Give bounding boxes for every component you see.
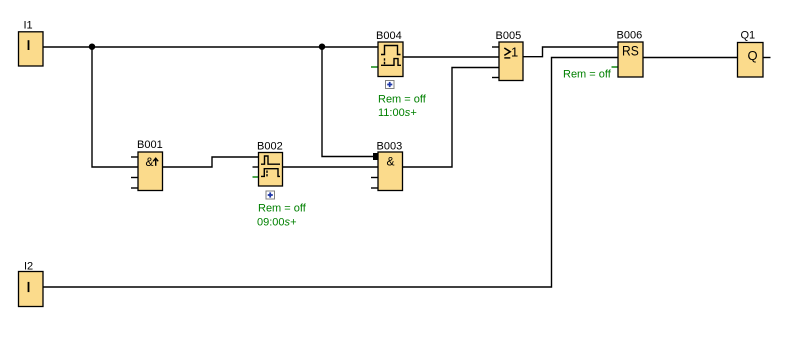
wire B001 output to B002 Trg input (163, 157, 259, 167)
pin stub B005 input 4 (492, 77, 499, 79)
input I2 (19, 261, 44, 307)
output Q1 (738, 30, 764, 78)
svg-text:09:00s+: 09:00s+ (257, 217, 297, 229)
svg-text:B005: B005 (496, 30, 522, 42)
svg-text:&: & (146, 155, 154, 169)
svg-text:Q: Q (748, 48, 758, 63)
node terminal square at B003 input 1 (373, 153, 380, 160)
wire B006 output to Q1 input (643, 57, 738, 59)
svg-text:I2: I2 (24, 261, 33, 273)
wire Q1 output stub (763, 57, 771, 59)
svg-text:B006: B006 (617, 30, 643, 42)
timer B002 (off-delay) (257, 141, 283, 187)
node junction J1 on I1 net (89, 44, 95, 50)
RS latch B006 (617, 30, 644, 78)
wire junction J2 down to B001 input 1 (322, 47, 378, 157)
svg-text:B001: B001 (137, 139, 163, 151)
wire B004 output to B005 input 2 (403, 56, 499, 58)
svg-text:&: & (387, 155, 395, 169)
pin stub B001 input 3 (131, 177, 138, 179)
expand icon below B004 (386, 81, 395, 89)
wire B002 output to B003 input 2 (283, 166, 379, 168)
pin stub B001 input 4 (131, 187, 138, 189)
svg-text:11:00s+: 11:00s+ (378, 107, 417, 119)
svg-text:B003: B003 (377, 141, 403, 153)
pin stub B001 input 1 (131, 156, 138, 158)
wire B003 output to B005 input 3 (403, 68, 500, 168)
node junction J2 on I1 net (319, 44, 325, 50)
svg-text:B004: B004 (376, 30, 402, 42)
svg-text:Rem = off: Rem = off (258, 203, 307, 215)
input I1 (19, 20, 44, 67)
pin stub B005 input 1 (492, 46, 499, 48)
pin stub B002 R input (253, 166, 259, 168)
wire I2 output to B006 R input (43, 58, 618, 288)
AND-edge gate B001 (137, 139, 163, 191)
expand icon below B002 (266, 191, 275, 199)
svg-text:B002: B002 (257, 141, 283, 153)
AND gate B003 (377, 141, 403, 191)
svg-text:I1: I1 (24, 20, 33, 32)
wire junction J1 down to B001 input 2 (92, 47, 138, 167)
pin stub B003 input 4 (371, 187, 378, 189)
wire I1 output to B004 Trg input (43, 46, 378, 48)
svg-text:Rem = off: Rem = off (563, 69, 612, 81)
pin stub B002 Par input (green) (253, 176, 259, 178)
svg-text:1: 1 (511, 44, 518, 59)
OR gate B005 (496, 30, 524, 81)
wire B005 output to B006 S input (523, 47, 618, 57)
timer B004 (on-delay) (376, 30, 403, 77)
svg-text:RS: RS (622, 43, 639, 59)
pin stub B004 Par input (green) (371, 66, 378, 68)
svg-text:Rem = off: Rem = off (378, 94, 427, 106)
pin stub B003 input 3 (371, 177, 378, 179)
svg-text:Q1: Q1 (741, 30, 756, 42)
pin stub B006 Par input (green) (612, 66, 619, 68)
